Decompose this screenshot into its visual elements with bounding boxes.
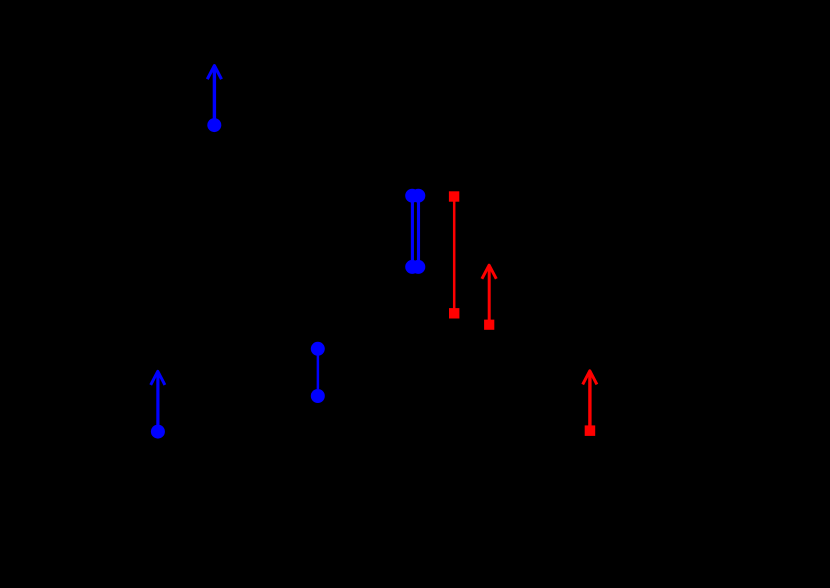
red upper-limit arrow P7 (shaft) [588, 371, 591, 430]
blue marker P2b top (circle) [411, 189, 425, 203]
blue marker P2a top (circle) [405, 189, 419, 203]
blue marker P1 (circle) [207, 118, 221, 132]
red marker P4 (square) [484, 320, 494, 330]
red upper-limit arrow P4 (shaft) [488, 266, 491, 325]
blue upper-limit arrow P6 (shaft) [156, 372, 159, 432]
blue marker P2a bottom (circle) [405, 260, 419, 274]
red marker P7 (square) [585, 425, 596, 436]
blue marker P5 top (circle) [311, 342, 325, 356]
blue error bar P2b (line) [417, 196, 420, 274]
blue error bar P2a (line) [411, 196, 414, 274]
red upper-limit arrow P7 (head) [583, 371, 597, 385]
blue upper-limit arrow P6 (head) [151, 371, 165, 385]
blue error bar P5 (line) [317, 349, 320, 396]
blue upper-limit arrow P1 (shaft) [213, 66, 216, 125]
blue marker P2b bottom (circle) [411, 260, 425, 274]
blue upper-limit arrow P1 (head) [207, 66, 221, 80]
red error bar P3 (line) [453, 197, 456, 313]
red marker P3 top (square) [449, 191, 459, 201]
blue marker P6 (circle) [151, 425, 165, 439]
blue marker P5 bottom (circle) [311, 389, 325, 403]
red upper-limit arrow P4 (head) [482, 265, 496, 279]
red marker P3 bottom (square) [449, 308, 459, 318]
